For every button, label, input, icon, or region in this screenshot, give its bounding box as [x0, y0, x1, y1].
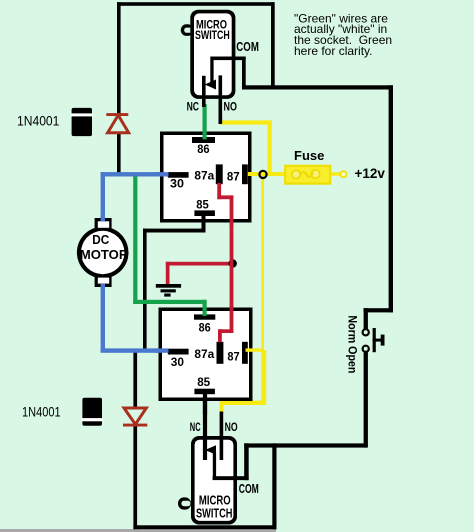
svg-text:85: 85 — [197, 375, 210, 389]
svg-text:86: 86 — [197, 142, 210, 156]
svg-text:MICRO: MICRO — [199, 493, 231, 507]
svg-text:1N4001: 1N4001 — [17, 112, 60, 128]
svg-text:COM: COM — [236, 39, 259, 54]
svg-text:87a: 87a — [194, 347, 214, 361]
svg-text:87a: 87a — [194, 169, 214, 183]
svg-text:here for clarity.: here for clarity. — [294, 44, 372, 58]
svg-text:+12v: +12v — [355, 166, 386, 181]
svg-text:Fuse: Fuse — [294, 148, 324, 163]
svg-text:85: 85 — [196, 198, 209, 212]
svg-text:SWITCH: SWITCH — [195, 30, 230, 42]
svg-text:SWITCH: SWITCH — [196, 506, 232, 520]
svg-text:NC: NC — [190, 420, 201, 434]
svg-text:87: 87 — [227, 170, 240, 184]
svg-text:NO: NO — [225, 420, 238, 434]
svg-text:NC: NC — [187, 101, 199, 113]
svg-text:86: 86 — [199, 320, 211, 334]
svg-text:DC: DC — [92, 232, 110, 247]
svg-text:NO: NO — [224, 101, 237, 113]
svg-text:COM: COM — [239, 481, 259, 496]
svg-text:MOTOR: MOTOR — [80, 247, 129, 262]
svg-text:87: 87 — [227, 349, 240, 363]
svg-text:Norm Open: Norm Open — [346, 315, 360, 373]
svg-text:30: 30 — [170, 177, 184, 191]
svg-text:30: 30 — [171, 355, 185, 369]
svg-text:1N4001: 1N4001 — [22, 403, 61, 419]
